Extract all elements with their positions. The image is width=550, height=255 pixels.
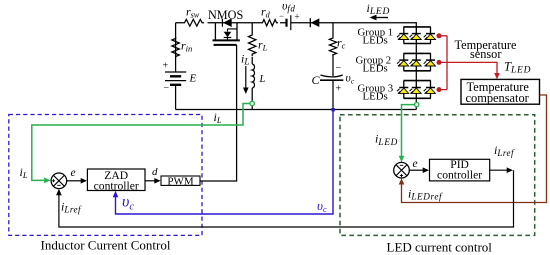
svg-text:iL: iL xyxy=(214,110,222,125)
svg-text:C: C xyxy=(312,73,321,87)
svg-text:+: + xyxy=(336,84,342,95)
svg-text:controller: controller xyxy=(94,179,139,192)
svg-text:PWM: PWM xyxy=(167,176,194,188)
svg-text:sensor: sensor xyxy=(470,47,501,61)
svg-text:υc: υc xyxy=(122,194,134,213)
svg-text:LED current control: LED current control xyxy=(387,239,493,254)
svg-text:iLref: iLref xyxy=(494,143,515,158)
svg-text:+: + xyxy=(163,61,169,72)
svg-text:LEDs: LEDs xyxy=(363,34,388,46)
svg-text:E: E xyxy=(189,73,197,85)
svg-text:rL: rL xyxy=(258,37,268,52)
svg-text:rin: rin xyxy=(181,38,192,53)
svg-text:iLref: iLref xyxy=(61,200,82,215)
svg-text:−: − xyxy=(164,83,170,94)
svg-text:+: + xyxy=(295,12,300,22)
svg-text:iLEDref: iLEDref xyxy=(408,186,443,201)
svg-text:LEDs: LEDs xyxy=(363,62,388,74)
svg-text:LEDs: LEDs xyxy=(363,90,388,102)
svg-text:L: L xyxy=(259,74,266,85)
svg-text:rd: rd xyxy=(261,5,271,20)
svg-text:−: − xyxy=(279,11,284,21)
svg-text:rc: rc xyxy=(337,35,346,50)
svg-text:−: − xyxy=(336,63,342,74)
svg-text:Inductor Current Control: Inductor Current Control xyxy=(41,237,171,252)
svg-text:compensator: compensator xyxy=(466,91,530,105)
svg-text:iLED: iLED xyxy=(375,132,398,148)
svg-text:d: d xyxy=(152,166,158,178)
svg-text:υc: υc xyxy=(346,73,355,86)
svg-text:iLED: iLED xyxy=(367,1,391,17)
svg-text:υc: υc xyxy=(317,198,327,214)
svg-text:controller: controller xyxy=(437,169,482,182)
svg-text:e: e xyxy=(71,167,76,179)
svg-text:e: e xyxy=(413,158,418,170)
svg-text:iL: iL xyxy=(241,51,249,66)
svg-text:NMOS: NMOS xyxy=(208,8,243,22)
svg-text:TLED: TLED xyxy=(504,59,531,75)
svg-text:iL: iL xyxy=(20,165,28,180)
svg-text:rsw: rsw xyxy=(186,5,200,20)
